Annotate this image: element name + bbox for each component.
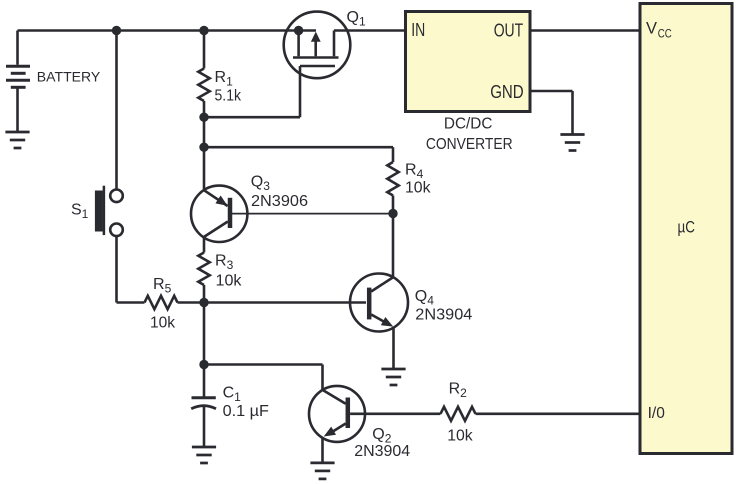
svg-text:BATTERY: BATTERY	[37, 69, 101, 85]
svg-text:I/0: I/0	[648, 405, 666, 422]
svg-text:2N3904: 2N3904	[415, 307, 472, 324]
svg-text:10k: 10k	[447, 428, 473, 445]
svg-text:IN: IN	[411, 20, 425, 40]
svg-text:10k: 10k	[150, 315, 176, 332]
svg-text:OUT: OUT	[494, 21, 524, 41]
svg-text:2N3906: 2N3906	[251, 193, 308, 210]
svg-text:0.1 µF: 0.1 µF	[223, 403, 270, 420]
svg-text:10k: 10k	[405, 180, 431, 197]
svg-text:CONVERTER: CONVERTER	[426, 136, 513, 153]
svg-text:V: V	[646, 20, 657, 38]
svg-text:10k: 10k	[216, 272, 243, 289]
svg-text:DC/DC: DC/DC	[444, 115, 493, 132]
svg-text:2N3904: 2N3904	[354, 443, 410, 460]
svg-text:5.1k: 5.1k	[215, 88, 242, 105]
svg-text:GND: GND	[490, 82, 524, 102]
svg-text:CC: CC	[658, 27, 672, 41]
svg-text:µC: µC	[678, 219, 696, 237]
